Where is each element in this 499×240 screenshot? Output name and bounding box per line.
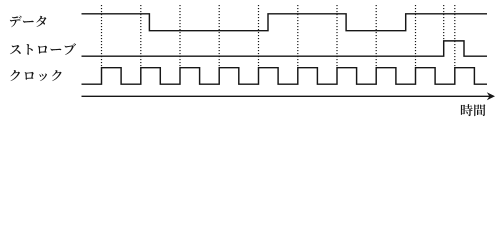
gridline marking strobe rising edge bbox=[443, 5, 445, 41]
waveform: data signal (データ) bbox=[82, 14, 488, 31]
gridline 2 (clock rising edge 2) bbox=[140, 5, 142, 68]
label: 時間 (time) bbox=[461, 104, 486, 116]
gridline 10 (clock rising edge 10) bbox=[454, 5, 456, 68]
gridline 7 (clock rising edge 7) bbox=[336, 5, 338, 68]
waveform: strobe signal (ストローブ) with single pulse bbox=[82, 41, 488, 56]
time axis line bbox=[82, 95, 492, 97]
gridline 4 (clock rising edge 4) bbox=[218, 5, 220, 68]
gridline 9 (clock rising edge 9) bbox=[415, 5, 417, 68]
gridline 1 (clock rising edge 1) bbox=[101, 5, 103, 68]
label: ストローブ (strobe) bbox=[10, 43, 76, 55]
waveform: clock signal (クロック), 10 pulses bbox=[82, 68, 488, 85]
gridline 8 (clock rising edge 8) bbox=[375, 5, 377, 68]
gridline 5 (clock rising edge 5) bbox=[258, 5, 260, 68]
time axis arrowhead bbox=[487, 92, 495, 100]
gridline 6 (clock rising edge 6) bbox=[297, 5, 299, 68]
gridline 3 (clock rising edge 3) bbox=[179, 5, 181, 68]
label: データ (data) bbox=[10, 16, 46, 28]
label: クロック (clock) bbox=[10, 70, 61, 81]
